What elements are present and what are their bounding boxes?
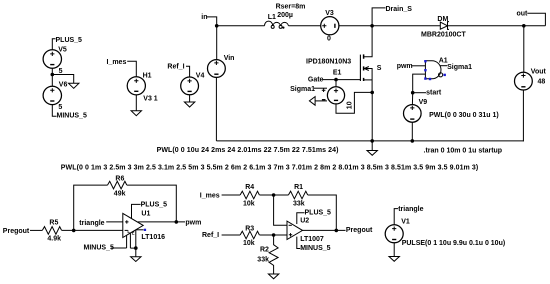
svg-text:U2: U2 <box>300 218 309 225</box>
inductor L1 <box>265 3 306 28</box>
comparator U1 LT1016 <box>123 201 167 248</box>
junction R3/R2 <box>272 233 276 237</box>
resistor R4 <box>240 184 259 208</box>
resistor R2 <box>257 235 278 274</box>
node PLUS_5 top-left label <box>52 37 82 50</box>
svg-text:DM: DM <box>437 16 448 23</box>
svg-text:4.9k: 4.9k <box>47 235 61 242</box>
svg-text:33k: 33k <box>293 201 305 208</box>
diode DM <box>421 16 466 39</box>
svg-text:PLUS_5: PLUS_5 <box>141 201 168 208</box>
svg-text:PWL(0 0 30u 0 31u 1): PWL(0 0 30u 0 31u 1) <box>429 112 499 119</box>
svg-text:in: in <box>201 14 207 21</box>
junction U1 gnd pins <box>134 246 138 250</box>
svg-text:PWL(0 0 10u 24 2ms 24 2.01ms 2: PWL(0 0 10u 24 2ms 24 2.01ms 22 7.5m 22 … <box>157 147 339 154</box>
svg-text:Pregout: Pregout <box>346 227 373 234</box>
node Drain_S label <box>372 6 412 26</box>
wire source down to rail <box>371 92 373 140</box>
node triangle label (U1 input) <box>79 220 123 227</box>
junction at Vout tap <box>522 24 526 28</box>
svg-text:pwm: pwm <box>185 220 201 227</box>
junction mosfet source <box>370 91 374 95</box>
mosfet M IPD180N10N3 <box>306 26 382 93</box>
junction R4/R1/U2minus <box>272 193 276 197</box>
wire junction to diode <box>372 25 440 27</box>
bulk lead <box>364 79 373 81</box>
U1 plus mark <box>125 220 128 223</box>
A1 unused pin squares <box>424 60 446 80</box>
svg-text:R5: R5 <box>49 220 58 227</box>
svg-text:Ref_I: Ref_I <box>167 64 184 71</box>
svg-text:48: 48 <box>538 78 546 85</box>
svg-text:LT1007: LT1007 <box>300 236 324 243</box>
resistor R1 <box>288 184 307 208</box>
ground below U1 <box>131 248 141 261</box>
node Sigma1 label into E1 <box>290 86 327 93</box>
svg-text:I_mes: I_mes <box>107 59 127 66</box>
junction feedback tap <box>72 229 76 233</box>
wire R3 to U2 plus input <box>260 234 288 236</box>
junction rail/mosfet <box>370 139 374 143</box>
voltage source V1 <box>385 218 505 256</box>
wire R4 to junction <box>260 194 289 196</box>
wire A1 output to Sigma1 <box>440 64 473 71</box>
svg-text:V6: V6 <box>59 81 68 88</box>
ground below H1 <box>131 111 141 116</box>
ccvs H1 <box>127 73 158 111</box>
wire R5 to U1 minus input <box>62 229 123 231</box>
node out label <box>517 11 546 26</box>
node triangle label (V1) <box>394 206 423 225</box>
node Ref_I label <box>167 64 189 77</box>
wire feedback up and over <box>74 185 108 230</box>
svg-text:Ref_I: Ref_I <box>202 232 219 239</box>
svg-text:49k: 49k <box>114 190 126 197</box>
U2 V- pin to MINUS_5 <box>297 237 300 249</box>
U1 Qbar stub with floating pin <box>136 229 144 231</box>
node 5 junction <box>51 68 63 76</box>
svg-text:H1: H1 <box>143 73 152 80</box>
wire U1 output to pwm <box>138 221 185 223</box>
svg-text:PLUS_5: PLUS_5 <box>56 37 83 44</box>
ground at rail <box>367 141 377 155</box>
wire junction down to U2 minus input <box>274 195 287 225</box>
svg-text:IPD180N10N3: IPD180N10N3 <box>306 59 351 66</box>
wire R6 to output corner <box>127 185 176 222</box>
ground below R2 <box>268 274 278 279</box>
svg-text:E: E <box>132 231 135 236</box>
node in label <box>201 14 216 26</box>
voltage source V4 <box>181 72 205 102</box>
svg-text:start: start <box>426 90 442 97</box>
junction U2 output feedback <box>335 229 339 233</box>
wire E1 bottom loop to source junction <box>336 92 372 113</box>
junction gate/E1 <box>334 78 338 82</box>
node MINUS_5 label (U1) <box>84 245 127 252</box>
svg-text:Rser=8m: Rser=8m <box>276 3 306 10</box>
voltage source Vout <box>515 69 547 141</box>
svg-text:MINUS_5: MINUS_5 <box>57 113 87 120</box>
svg-text:Vout: Vout <box>531 69 547 76</box>
U2 plus mark <box>289 233 292 236</box>
svg-text:V3: V3 <box>325 10 334 17</box>
svg-text:Gate: Gate <box>308 77 324 84</box>
svg-text:R2: R2 <box>260 247 269 254</box>
svg-text:L1: L1 <box>268 14 276 21</box>
svg-text:out: out <box>517 11 529 18</box>
svg-text:Pregout: Pregout <box>3 228 30 235</box>
U1 minus mark <box>125 229 128 231</box>
svg-text:0: 0 <box>327 35 331 42</box>
node Ref_I label (bottom) <box>202 232 240 239</box>
svg-text:L: L <box>127 229 130 234</box>
svg-text:V9: V9 <box>419 99 428 106</box>
svg-text:10k: 10k <box>243 201 255 208</box>
svg-text:MBR20100CT: MBR20100CT <box>421 31 466 38</box>
node Pregout label (left) <box>3 228 43 235</box>
svg-text:pwm: pwm <box>397 63 413 70</box>
wire R1 to feedback corner <box>308 195 337 230</box>
svg-text:Sigma1: Sigma1 <box>290 86 315 93</box>
junction rail/V9 <box>411 139 415 143</box>
svg-text:triangle: triangle <box>79 220 104 227</box>
svg-text:10: 10 <box>346 101 353 109</box>
wire start input to A1 <box>413 74 426 93</box>
E1 control minus mark <box>322 99 326 101</box>
junction Drain_S <box>370 24 374 28</box>
wire L1 to V3 <box>289 25 321 27</box>
svg-text:V1: V1 <box>401 218 410 225</box>
svg-text:PLUS_5: PLUS_5 <box>305 209 332 216</box>
wire node5 to ground <box>52 75 73 84</box>
drain lead <box>363 26 372 57</box>
svg-text:33k: 33k <box>257 257 269 264</box>
wire V3 to Drain_S junction <box>339 25 372 27</box>
svg-text:Drain_S: Drain_S <box>386 6 413 13</box>
resistor R6 <box>108 176 127 198</box>
svg-text:R1: R1 <box>294 184 303 191</box>
ground below V4 <box>184 102 194 107</box>
wire down to Vout <box>523 26 525 72</box>
svg-text:triangle: triangle <box>398 206 423 213</box>
svg-text:MINUS_5: MINUS_5 <box>300 245 330 252</box>
node I_mes label (bottom) <box>200 192 240 199</box>
node pwm label (top) <box>397 63 426 70</box>
svg-text:V5: V5 <box>58 47 67 54</box>
dependent source E1 <box>322 70 354 110</box>
E1 control plus mark <box>322 88 326 92</box>
node I_mes label <box>107 59 137 77</box>
svg-text:PWL(0 0 1m 3 2.5m 3 3m 2.5 3.1: PWL(0 0 1m 3 2.5m 3 3m 2.5 3.1m 2.5 5m 3… <box>61 165 478 172</box>
wire diode to out corner <box>448 25 546 27</box>
and gate A1 <box>424 58 448 81</box>
U2 minus mark <box>289 224 292 226</box>
svg-text:MINUS_5: MINUS_5 <box>84 245 114 252</box>
svg-text:PULSE(0 1 10u 9.9u 0.1u 0 10u): PULSE(0 1 10u 9.9u 0.1u 0 10u) <box>402 240 506 247</box>
A1 complementary output bubble <box>439 73 443 77</box>
dangling arrow antenna at E1 minus input <box>309 97 327 106</box>
svg-text:.tran 0 10m 0 1u startup: .tran 0 10m 0 1u startup <box>424 147 503 154</box>
node start label <box>413 90 442 97</box>
voltage source V3 <box>321 10 339 42</box>
wire top rail left segment <box>217 25 265 27</box>
svg-text:I_mes: I_mes <box>200 192 220 199</box>
svg-text:V4: V4 <box>196 72 205 79</box>
svg-text:S: S <box>377 65 382 72</box>
svg-text:V3 1: V3 1 <box>143 95 158 102</box>
bottom rail wire <box>216 140 524 142</box>
svg-text:LT1016: LT1016 <box>141 234 165 241</box>
voltage source V6 <box>43 75 67 111</box>
voltage source Vin <box>208 26 235 141</box>
junction at in <box>215 24 219 28</box>
gate bar <box>359 55 361 81</box>
svg-text:E1: E1 <box>333 70 342 77</box>
wire gate <box>322 79 360 81</box>
node MINUS_5 label <box>52 105 87 120</box>
ground below V1 <box>389 257 399 262</box>
svg-text:U1: U1 <box>141 210 150 217</box>
svg-text:5: 5 <box>58 104 62 111</box>
svg-text:200µ: 200µ <box>277 12 293 19</box>
svg-text:10k: 10k <box>243 240 255 247</box>
resistor R5 <box>42 220 61 243</box>
voltage source V5 <box>43 47 67 75</box>
junction U1 output feedback <box>175 220 179 224</box>
svg-text:Sigma1: Sigma1 <box>447 64 472 71</box>
op-amp U2 LT1007 <box>287 209 331 252</box>
voltage source V9 <box>404 93 499 141</box>
wire U2 output to Pregout <box>303 229 346 231</box>
junction start <box>411 91 415 95</box>
channel bars <box>363 54 365 81</box>
ground at node 5 <box>69 83 79 88</box>
svg-text:Vin: Vin <box>224 55 235 62</box>
svg-text:R4: R4 <box>245 184 254 191</box>
source arrow lead <box>364 69 372 93</box>
resistor R3 <box>240 225 259 247</box>
U1 bottom pins <box>127 230 136 248</box>
